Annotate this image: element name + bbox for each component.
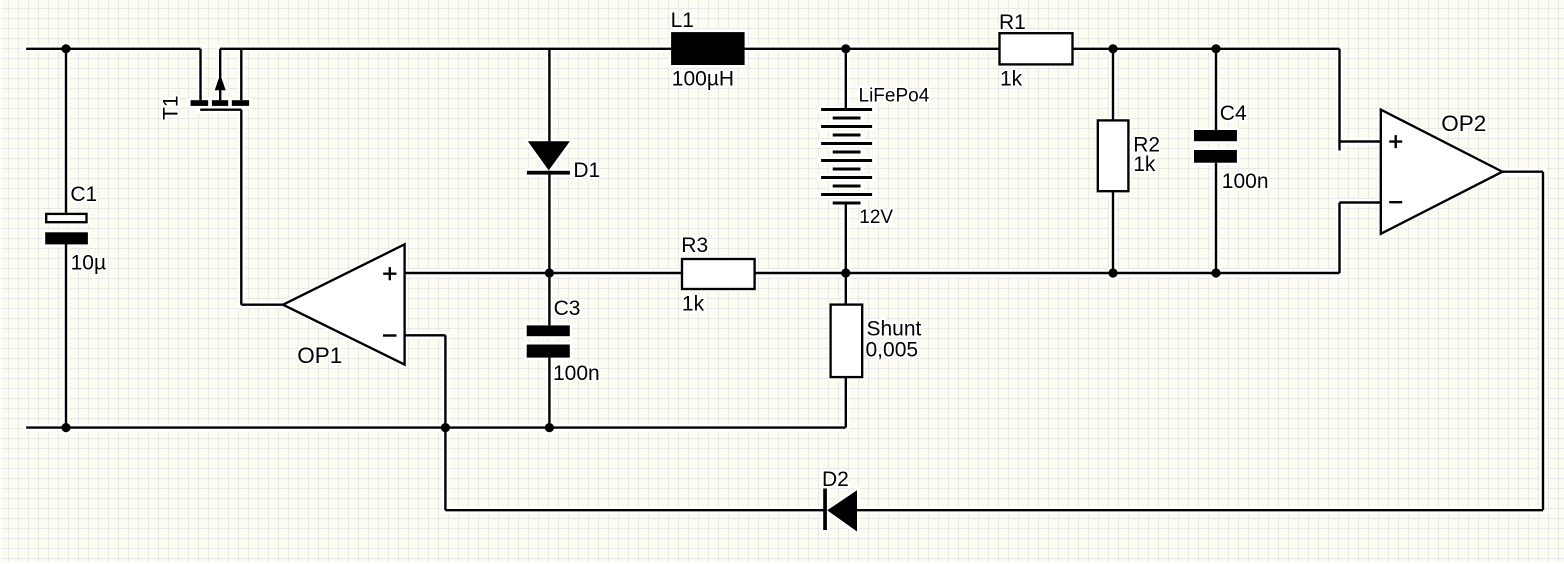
- svg-text:Shunt: Shunt: [867, 318, 922, 341]
- svg-text:OP1: OP1: [297, 343, 342, 368]
- svg-text:OP2: OP2: [1441, 111, 1486, 136]
- svg-text:LiFePo4: LiFePo4: [859, 86, 930, 107]
- svg-text:12V: 12V: [859, 207, 893, 228]
- svg-text:C1: C1: [70, 183, 97, 206]
- svg-text:100n: 100n: [1222, 170, 1269, 193]
- svg-text:C4: C4: [1220, 102, 1247, 125]
- svg-text:D2: D2: [822, 468, 849, 491]
- svg-text:100n: 100n: [553, 362, 600, 385]
- svg-text:1k: 1k: [682, 293, 705, 316]
- svg-text:D1: D1: [573, 159, 600, 182]
- svg-text:C3: C3: [554, 297, 581, 320]
- svg-text:T1: T1: [160, 95, 183, 120]
- svg-text:L1: L1: [671, 9, 694, 32]
- svg-text:R1: R1: [999, 11, 1026, 34]
- svg-text:10µ: 10µ: [71, 252, 106, 275]
- svg-text:100µH: 100µH: [672, 68, 734, 91]
- svg-text:1k: 1k: [1000, 68, 1023, 91]
- svg-text:1k: 1k: [1133, 153, 1156, 176]
- svg-text:0,005: 0,005: [866, 339, 919, 362]
- svg-text:R3: R3: [681, 234, 708, 257]
